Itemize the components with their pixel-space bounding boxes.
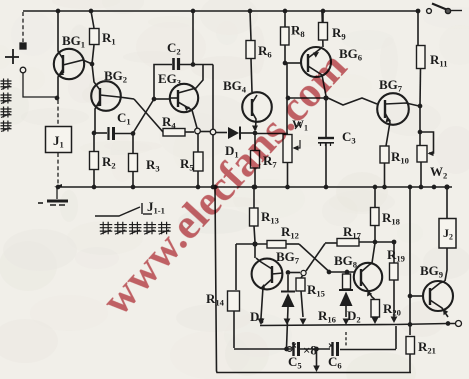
wire J2 bottom lead xyxy=(445,248,447,281)
resistor R16 xyxy=(343,274,351,289)
wire R18 bottom lead xyxy=(374,226,376,241)
arrow D2 to rail xyxy=(343,319,350,326)
wire corner x396 xyxy=(395,326,397,349)
arrow BG7 emitter xyxy=(386,116,391,122)
wire wire y242 xyxy=(325,242,337,244)
wire R16 top lead xyxy=(346,273,348,274)
wire D3 top lead xyxy=(287,275,289,291)
wire R9 top lead xyxy=(322,11,324,22)
wire BG7 base jog xyxy=(328,98,377,105)
wire R19 top lead xyxy=(393,242,395,263)
wire R15 bottom lead xyxy=(301,291,303,317)
resistor R3 xyxy=(129,154,138,172)
label relay circuit chinese xyxy=(100,222,113,235)
wire R11 bottom lead xyxy=(419,69,422,106)
wire R14 top lead xyxy=(235,244,237,290)
wire W1 column xyxy=(286,64,288,135)
resistor R21 xyxy=(406,337,415,355)
arrow BG7b emitter to rail xyxy=(258,319,265,326)
wire W2 bottom lead xyxy=(420,162,422,187)
resistor R13 xyxy=(250,208,259,226)
resistor R20 xyxy=(371,300,380,318)
arrow BG1 emitter xyxy=(59,70,64,76)
wire R8 top lead xyxy=(284,11,286,27)
arrow BG2 emitter xyxy=(96,101,101,106)
arrow BG3 emitter xyxy=(184,106,190,111)
capacitor C5 xyxy=(294,342,299,356)
wire C2 right wire xyxy=(180,64,213,66)
wire BG7b collector lead xyxy=(254,244,256,258)
wire R11 top lead xyxy=(417,11,419,45)
wire C1 to node xyxy=(115,133,132,135)
wire cap bus y349 xyxy=(234,348,396,351)
node ring BG3 emitter xyxy=(195,128,201,134)
arrow BG4 emitter xyxy=(252,126,258,132)
wire R13 top lead xyxy=(253,188,255,208)
watermark xyxy=(93,43,356,324)
wire R1 bottom lead xyxy=(92,45,94,64)
wire R6 bottom lead xyxy=(251,59,252,92)
wire R15 top lead xyxy=(301,276,303,279)
switch manual pushbutton xyxy=(5,12,56,97)
wire R3 top lead xyxy=(132,134,134,153)
resistor R10 xyxy=(380,146,389,163)
wire R6 top lead xyxy=(250,11,251,40)
resistor R8 xyxy=(281,27,290,45)
wire R5 top lead xyxy=(197,134,199,152)
resistor R5 xyxy=(194,152,204,171)
transistor BG4 xyxy=(242,92,272,130)
ground xyxy=(38,188,68,205)
arrow drop to bus2 xyxy=(313,366,320,373)
wire C3 bottom lead xyxy=(325,144,327,188)
transistor BG3 xyxy=(170,65,203,128)
node ring C5 xyxy=(287,347,292,352)
arrow R15 to rail xyxy=(300,319,307,326)
wire C2 left wire xyxy=(154,65,172,99)
resistor R4 xyxy=(163,129,185,137)
arrow R20 to rail xyxy=(372,318,379,325)
wire R7 bottom lead xyxy=(254,168,256,187)
arrow BG9 emitter xyxy=(443,309,448,315)
resistor R1 xyxy=(90,29,100,45)
switch power top-right xyxy=(427,4,462,14)
wire cross R12 to BG8 base xyxy=(299,244,329,272)
resistor R18 xyxy=(371,208,380,226)
transistor BG2 xyxy=(91,64,134,133)
wire BG6 base wire xyxy=(285,62,301,64)
transistor BG6 xyxy=(301,12,331,96)
resistor R2 xyxy=(90,152,99,170)
wire R3 bottom lead xyxy=(132,172,134,187)
wire cross C1 node to BG3 base node xyxy=(133,99,154,133)
wire top supply bus xyxy=(23,10,418,12)
wire R8 bottom lead xyxy=(284,45,286,62)
capacitor C6 xyxy=(333,342,338,356)
wire R2 bottom lead xyxy=(93,170,95,187)
arrow BG7b emitter xyxy=(260,284,266,290)
wire R13 bottom lead xyxy=(254,226,255,242)
wire BG8 base wire xyxy=(329,271,354,273)
resistor R15 xyxy=(296,278,305,291)
wire D1 to BG4 emitter node xyxy=(240,132,254,134)
wire ring to ring2 xyxy=(201,131,211,133)
wire left rail bottom section xyxy=(215,188,411,373)
wire C5 node drop xyxy=(316,349,318,370)
wire W1 column node wire xyxy=(288,97,324,99)
wire R1 top lead xyxy=(91,11,94,28)
wire D2 column continuation xyxy=(345,332,347,347)
arrow R19 to rail xyxy=(391,317,398,324)
wire C3 top lead xyxy=(325,100,327,137)
arrow D3 to rail xyxy=(284,319,291,326)
wire J2 top lead xyxy=(446,188,448,218)
wire BG7b base wire xyxy=(288,272,300,274)
transistor BG9 xyxy=(423,281,453,317)
wire bottom ground bus xyxy=(57,186,452,188)
wire R17 to R19 node xyxy=(359,241,394,243)
wire BG9 base wire xyxy=(410,295,423,297)
resistor R7 xyxy=(251,151,260,169)
resistor R12 xyxy=(267,241,286,249)
terminal output xyxy=(456,321,462,327)
wire R12 right to cross xyxy=(286,243,299,245)
wire cross BG2 base to R4 xyxy=(134,99,163,132)
wire BG3 base node to BG3 xyxy=(154,98,169,100)
node ring R15 xyxy=(301,270,306,275)
wire BG2 emitter to C1 xyxy=(95,132,107,134)
wire ring2 to D1 xyxy=(216,132,227,134)
resistor R17 xyxy=(337,239,359,247)
diode D3 xyxy=(281,291,295,293)
wire right rail top xyxy=(409,187,411,335)
transistor BG1 xyxy=(54,12,92,97)
node ring 2 xyxy=(210,129,216,135)
label manual switch chinese xyxy=(1,79,12,90)
wire D2 bottom lead xyxy=(345,306,347,317)
resistor R14 xyxy=(228,291,240,311)
wire W2 bypass xyxy=(420,132,434,153)
wire column x213 xyxy=(212,65,214,188)
switch contact J1-1 xyxy=(95,203,152,216)
wire D3 bottom lead xyxy=(287,307,289,348)
wire R4 to ring xyxy=(185,131,194,133)
wire cross ring to R17 xyxy=(306,244,325,272)
resistor R9 xyxy=(319,23,328,41)
wire R2 top lead xyxy=(93,134,95,151)
diode D2 xyxy=(339,289,353,291)
wire R7 top lead xyxy=(254,134,256,150)
resistor R11 xyxy=(417,46,426,69)
transistor BG7b xyxy=(252,258,283,318)
wire rail y325 xyxy=(260,324,455,326)
wire top bus drop to C2 node xyxy=(192,11,194,64)
wire right rail bottom xyxy=(409,354,411,373)
arrow bus left end xyxy=(54,184,62,187)
wire W1 bottom lead xyxy=(287,163,289,188)
wire W2 top lead xyxy=(419,106,421,145)
wire node wire y244 xyxy=(236,243,267,245)
wire R18 top lead xyxy=(374,188,376,207)
transistor BG7 xyxy=(377,93,419,146)
arrow BG8 emitter xyxy=(367,291,372,297)
wire R20 bottom lead xyxy=(374,317,376,318)
potentiometer W1 xyxy=(283,135,292,163)
wire R5 bottom lead xyxy=(197,172,199,188)
resistor R6 xyxy=(246,41,255,59)
relay J1 xyxy=(57,100,59,126)
wire emitter node to W1 top xyxy=(255,133,288,135)
wire R10 bottom lead xyxy=(384,163,386,187)
arrow BG6 collector xyxy=(313,52,319,58)
wire R19 bottom lead xyxy=(393,280,395,317)
transistor BG8 xyxy=(354,243,382,299)
resistor R19 xyxy=(390,263,399,280)
wire R14 bottom lead xyxy=(233,311,235,348)
